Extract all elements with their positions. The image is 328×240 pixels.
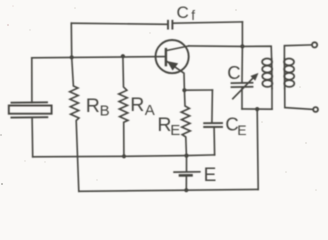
terminal bottom right <box>313 107 318 112</box>
transistor Q1 emitter diagonal <box>166 61 184 90</box>
wire secondary top to terminal <box>284 45 311 59</box>
junction dot collector-tank <box>240 44 244 48</box>
label C variable <box>227 62 240 83</box>
battery E bottom lead <box>185 176 187 190</box>
resistor RE <box>181 90 190 155</box>
label RA <box>130 94 155 119</box>
capacitor CE <box>204 123 222 127</box>
battery E top lead <box>186 156 188 172</box>
junction dot RA bottom <box>122 154 126 158</box>
svg-text:E: E <box>204 165 217 186</box>
wire emitter to CE <box>184 89 212 91</box>
wire var cap bottom lead <box>241 87 243 109</box>
wire emitter net horizontal <box>33 155 215 157</box>
inductor L2 secondary coil <box>284 59 294 89</box>
junction dot battery bottom <box>184 188 188 192</box>
paper speckles <box>0 5 317 191</box>
label Cf <box>177 3 196 23</box>
svg-text:C: C <box>227 62 240 83</box>
transistor Q1 collector diagonal <box>166 46 189 51</box>
wire left top vertical <box>70 23 72 57</box>
label RE <box>157 114 180 139</box>
label E battery <box>204 165 217 186</box>
wire base rail <box>32 57 166 58</box>
svg-text:C: C <box>177 3 189 22</box>
svg-text:A: A <box>145 102 155 119</box>
svg-text:R: R <box>86 95 100 117</box>
label CE <box>225 114 246 138</box>
wire secondary bottom to terminal <box>285 89 313 110</box>
variable capacitor C arrow <box>233 76 256 99</box>
crystal Y1 bottom lead <box>31 118 34 157</box>
wire top feedback left segment <box>71 23 166 24</box>
wire CE bottom vertical <box>213 128 216 155</box>
variable capacitor C <box>232 83 253 87</box>
junction dot tank bottom <box>255 107 259 111</box>
battery E long plate <box>174 171 200 173</box>
resistor RB <box>70 57 79 191</box>
svg-text:E: E <box>170 122 180 139</box>
wire primary top <box>242 46 271 59</box>
resistor RA <box>119 56 128 156</box>
terminal top right <box>312 42 317 47</box>
wire tank left vertical top <box>241 22 243 47</box>
wire collector to tank <box>189 45 243 48</box>
wire tank cap lead <box>241 46 243 82</box>
transistor Q1 circle <box>156 40 189 73</box>
junction dot battery top <box>184 154 188 158</box>
svg-text:E: E <box>237 122 246 138</box>
junction dot base-RA <box>121 54 125 58</box>
svg-text:B: B <box>100 103 110 120</box>
inductor L1 primary coil <box>262 59 272 89</box>
crystal Y1 <box>9 102 52 117</box>
wire tank bottom rail <box>242 108 272 110</box>
svg-text:f: f <box>191 8 195 23</box>
wire CE top vertical <box>211 90 214 123</box>
transistor Q1 base bar <box>165 49 167 65</box>
crystal Y1 top lead <box>31 58 33 103</box>
junction dot base-RB <box>70 55 74 59</box>
label RB <box>86 95 110 120</box>
wire primary bottom <box>271 89 273 110</box>
junction dot emitter <box>182 88 186 92</box>
wire top feedback right segment <box>173 22 242 23</box>
battery E short plate <box>180 174 192 177</box>
wire bottom rail <box>79 189 258 191</box>
svg-text:R: R <box>130 94 144 116</box>
wire right bottom vertical <box>257 109 258 189</box>
capacitor Cf <box>168 21 172 29</box>
transistor Q1 emitter arrowhead <box>168 62 178 70</box>
